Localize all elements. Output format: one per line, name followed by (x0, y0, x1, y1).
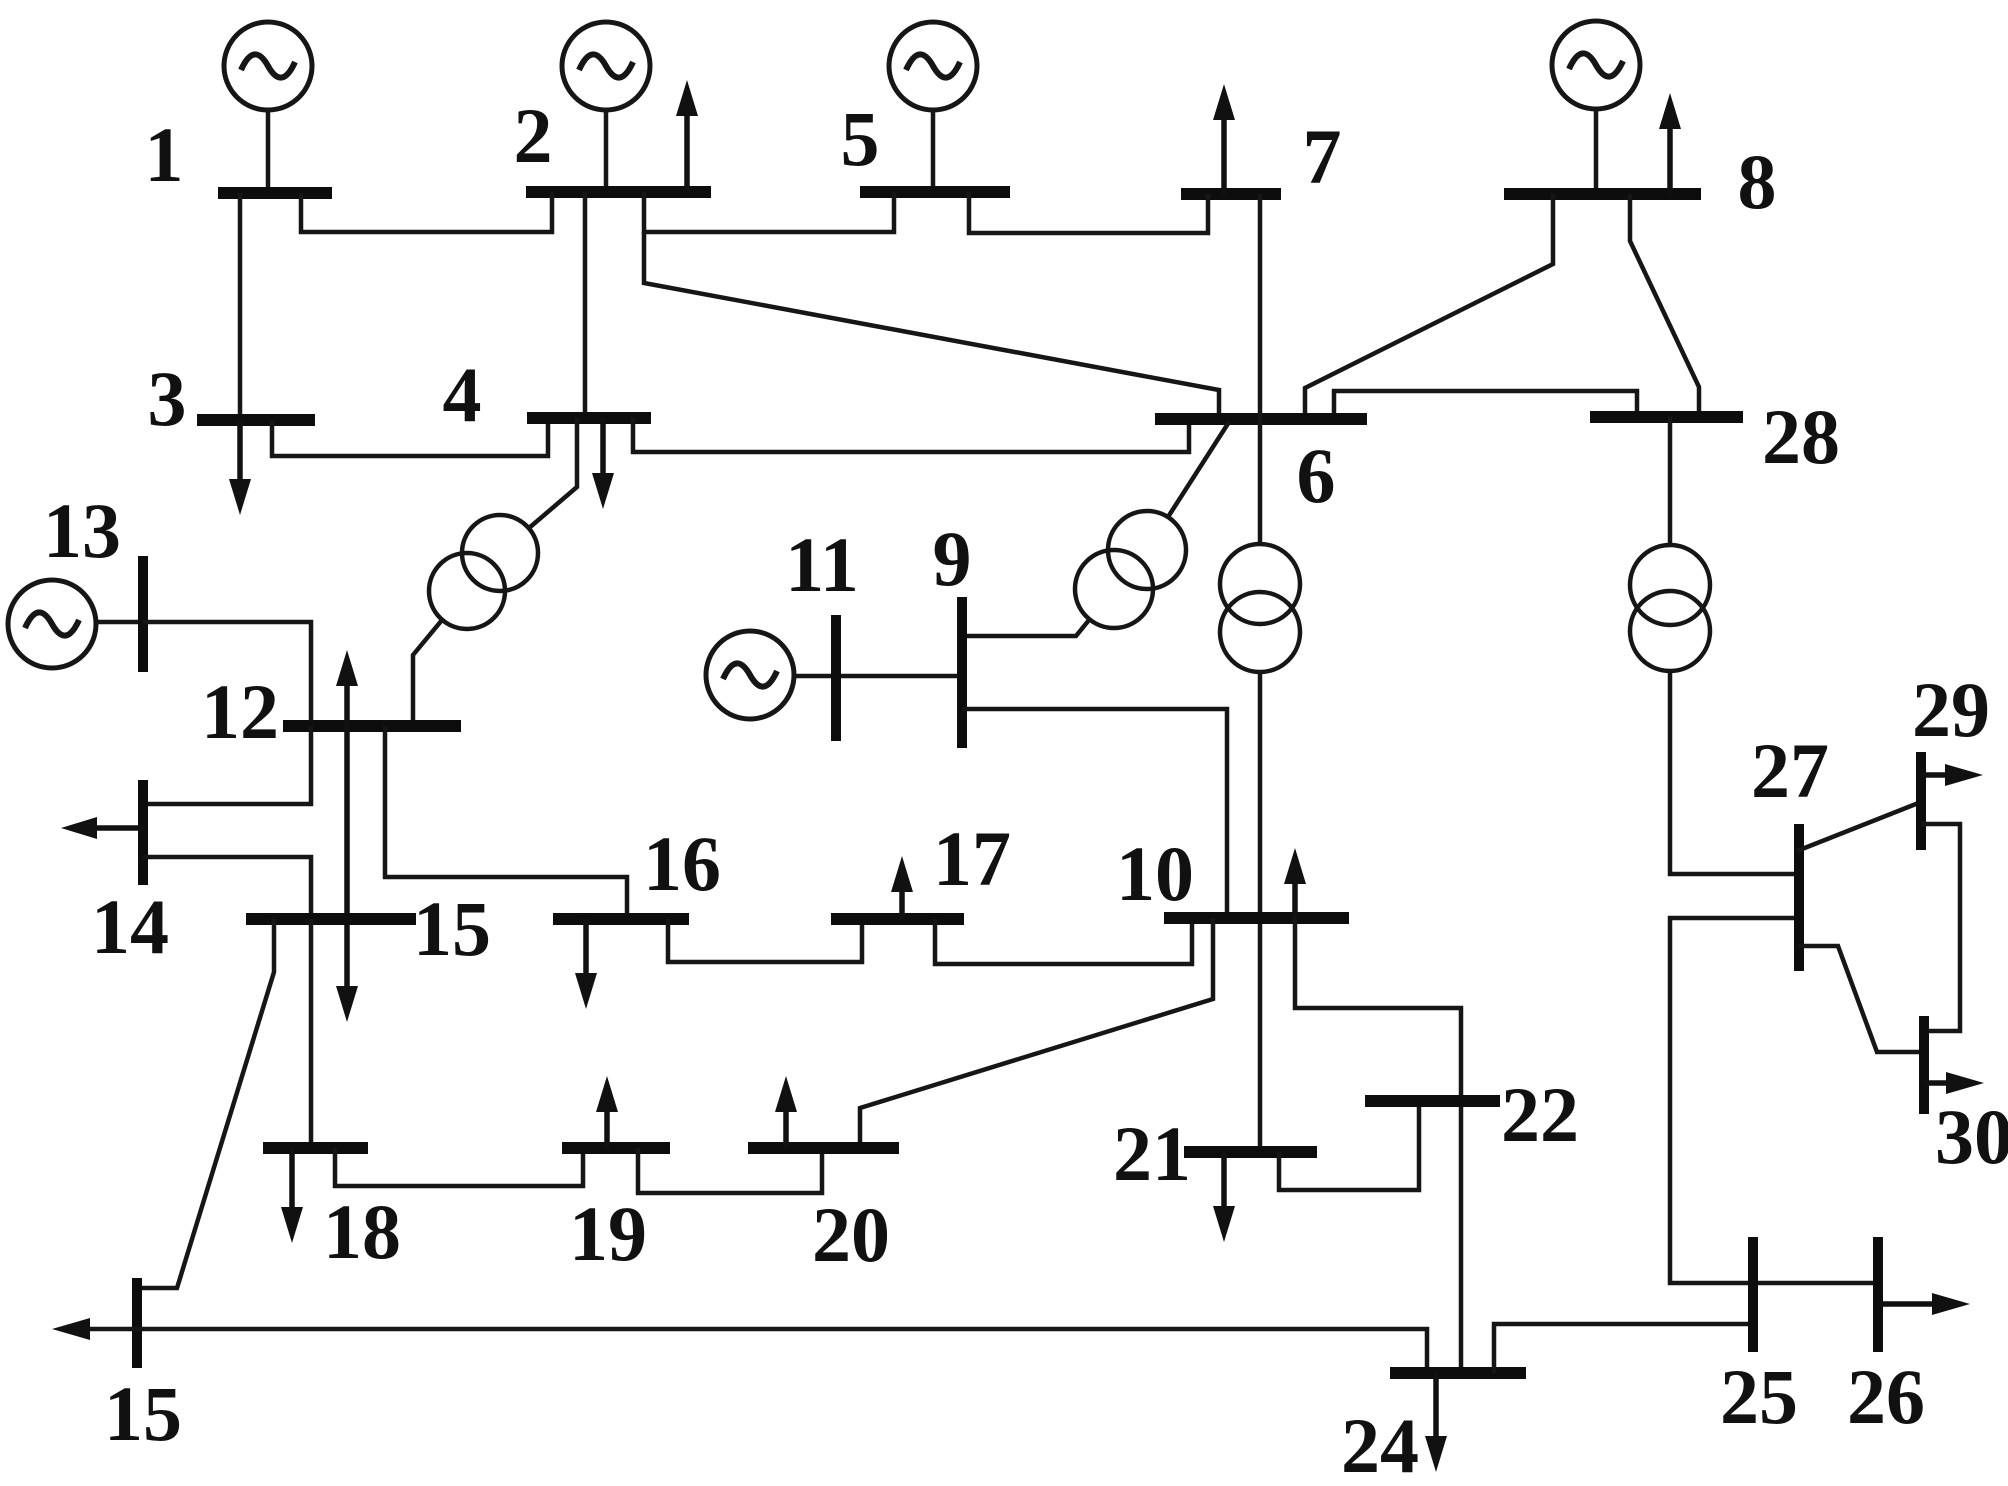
bus 24 (1390, 1367, 1526, 1379)
bus 7 (1181, 188, 1281, 200)
generator G5 (889, 22, 977, 110)
wire line 8-6 diagonal (1305, 194, 1553, 419)
generator G2 (562, 22, 650, 110)
generator G8 (1552, 21, 1640, 109)
svg-text:3: 3 (148, 355, 187, 442)
wire G2 stem (604, 110, 609, 192)
wire line 1-3 (238, 193, 243, 420)
svg-text:21: 21 (1113, 1110, 1191, 1197)
wire G13 stem (96, 620, 143, 625)
svg-text:16: 16 (643, 820, 721, 907)
load arrow bus 29 (1921, 764, 1983, 786)
load arrow bus 30 (1924, 1072, 1984, 1094)
load arrow bus 4 (592, 418, 614, 509)
wire line 27-25 and 25-26 (1670, 918, 1878, 1283)
wire line 5-7 (969, 192, 1208, 233)
bus 21 (1184, 1146, 1317, 1158)
wire G8 stem (1594, 109, 1599, 194)
bus 1 (218, 187, 332, 199)
wire line 17-10 (935, 918, 1192, 964)
svg-text:20: 20 (812, 1191, 890, 1278)
bus 28 (1590, 411, 1743, 423)
bus 23 (labelled 15) (132, 1278, 142, 1368)
transformer T6-10 (1220, 544, 1300, 672)
wire transformer T4-12 to bus 12 (413, 620, 442, 726)
wire line 6-28 (1334, 391, 1637, 419)
generator G1 (224, 22, 312, 110)
bus 8 (1504, 188, 1701, 200)
bus 26 (1873, 1237, 1883, 1352)
bus 29 (1916, 752, 1926, 850)
wire line 3-4 (272, 418, 548, 456)
svg-text:11: 11 (785, 521, 859, 608)
svg-text:26: 26 (1847, 1353, 1925, 1440)
svg-text:10: 10 (1116, 830, 1194, 917)
svg-text:1: 1 (145, 111, 184, 198)
wire line 10-20 (860, 918, 1213, 1148)
wire line 12-15 with load arrows (336, 650, 358, 1022)
load arrow bus 24 (1425, 1373, 1447, 1472)
svg-text:12: 12 (201, 668, 279, 755)
load arrow bus 18 (281, 1148, 303, 1243)
wire line 14-15 (143, 857, 311, 919)
bus 2 (526, 186, 711, 198)
bus 17 (831, 913, 964, 925)
wire line 9-10 (962, 709, 1227, 918)
load arrow bus 26 (1878, 1293, 1970, 1315)
load arrow bus 20 (775, 1076, 797, 1148)
wire line 6-7 and 6-10 upper (1258, 194, 1263, 544)
svg-text:17: 17 (933, 815, 1011, 902)
bus 11 (831, 615, 841, 741)
bus 30 (1919, 1016, 1929, 1114)
bus 12 (283, 720, 461, 732)
wire line 16-17 (668, 919, 862, 962)
wire line 10-22 and 22-24 (1295, 918, 1461, 1373)
bus 14 (138, 780, 148, 885)
wire line 13-12 (143, 622, 311, 726)
bus 3 (197, 414, 315, 426)
svg-text:14: 14 (91, 883, 169, 970)
wire G11 to bus 11 to bus 9 (794, 674, 962, 679)
load arrow bus 21 (1213, 1152, 1235, 1242)
svg-text:30: 30 (1935, 1093, 2008, 1180)
wire line 1-2 (301, 192, 552, 232)
wire bus28 to transformer T28-27 (1668, 417, 1673, 545)
svg-text:22: 22 (1501, 1071, 1579, 1158)
wire line 4-6 (633, 418, 1189, 452)
load arrow bus 8 (1659, 93, 1681, 194)
load arrow bus 10 (1284, 848, 1306, 918)
bus 10 (1164, 912, 1349, 924)
load arrow bus 3 (229, 420, 251, 515)
svg-text:27: 27 (1751, 727, 1829, 814)
load arrow bus 17 (891, 856, 913, 919)
wire line 2-5 (644, 192, 894, 232)
transformer T4-12 (429, 515, 538, 629)
bus 20 (748, 1142, 899, 1154)
svg-text:28: 28 (1762, 393, 1840, 480)
svg-text:29: 29 (1912, 666, 1990, 753)
wire line 12-14 (143, 726, 311, 804)
load arrow bus 7 (1213, 84, 1235, 194)
generator G11 (706, 631, 794, 719)
wire G1 stem (266, 110, 271, 193)
wire line 8-28 diagonal (1630, 194, 1699, 417)
load arrow bus 14 (61, 817, 143, 839)
bus 9 (957, 597, 967, 748)
wire line 23-24 long with left load arrow (52, 1318, 1427, 1373)
svg-text:18: 18 (323, 1188, 401, 1275)
svg-text:19: 19 (569, 1190, 647, 1277)
svg-text:24: 24 (1341, 1402, 1419, 1486)
wire line 21-22 (1279, 1101, 1419, 1190)
bus 25 (1748, 1237, 1758, 1352)
wire line 27-30 (1799, 946, 1924, 1052)
wire line 15-18 (309, 919, 314, 1148)
load arrow bus 19 (596, 1076, 618, 1148)
bus 15 (246, 913, 416, 925)
wire line 18-19 (335, 1148, 583, 1186)
svg-text:4: 4 (443, 351, 482, 438)
svg-text:2: 2 (514, 92, 553, 179)
bus 4 (527, 412, 651, 424)
wire transformer T28-27 to bus 27 (1670, 671, 1799, 874)
svg-text:7: 7 (1303, 113, 1342, 200)
bus 13 (138, 556, 148, 672)
transformer T6-9 (1075, 511, 1186, 628)
bus 6 (1155, 413, 1367, 425)
svg-text:8: 8 (1738, 138, 1777, 225)
bus 5 (860, 186, 1010, 198)
wire transformer T6-10 to bus 10 and bus 21 (1258, 672, 1263, 1152)
svg-text:5: 5 (841, 95, 880, 182)
generator G13 (8, 580, 96, 668)
wire transformer T6-9 to bus 9 (962, 620, 1089, 636)
bus 22 (1365, 1095, 1500, 1107)
wire bus6 to transformer T6-9 (1168, 422, 1229, 517)
bus 16 (553, 913, 689, 925)
wire bus4 to transformer T4-12 (529, 418, 577, 528)
bus 27 (1794, 824, 1804, 971)
wire line 12-16 (385, 726, 627, 919)
bus 18 (263, 1142, 368, 1154)
svg-text:25: 25 (1720, 1353, 1798, 1440)
wire line 19-20 (638, 1148, 822, 1193)
svg-text:6: 6 (1297, 432, 1336, 519)
wire line 24-25 (1494, 1324, 1753, 1373)
bus 19 (562, 1142, 670, 1154)
svg-text:15: 15 (104, 1370, 182, 1457)
transformer T28-27 (1630, 545, 1710, 671)
svg-text:9: 9 (933, 515, 972, 602)
svg-text:13: 13 (43, 487, 121, 574)
wire line 2-4 (583, 192, 588, 418)
wire G5 stem (931, 110, 936, 192)
wire line 29-30 (1921, 824, 1960, 1031)
wire line 2-6 diagonal (644, 232, 1219, 419)
wire line 15-23 diagonal (137, 919, 274, 1288)
load arrow bus 16 (575, 919, 597, 1009)
load arrow bus 2 (676, 80, 698, 192)
wire line 27-29 diagonal (1797, 802, 1921, 851)
svg-text:15: 15 (413, 885, 491, 972)
